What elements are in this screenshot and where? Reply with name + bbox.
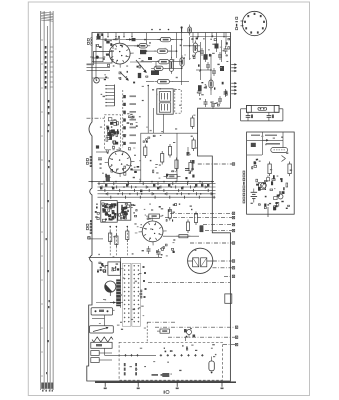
AM coil box	[91, 308, 112, 315]
transistor det T2	[278, 194, 283, 199]
wire dash-dot to terminal	[170, 212, 232, 214]
contact	[145, 288, 147, 290]
wire det top	[247, 139, 283, 141]
wire stub above border	[181, 27, 183, 33]
wire lamp left drop	[240, 109, 242, 121]
wire	[104, 348, 106, 355]
speaker with output transformer	[188, 248, 213, 273]
mark below schematic	[164, 391, 166, 394]
wire det vertical a	[261, 132, 263, 155]
wire	[183, 45, 200, 47]
junction	[127, 181, 129, 183]
resistor R2	[136, 44, 150, 48]
terminal	[235, 326, 237, 328]
IF can small box	[225, 294, 232, 303]
wire	[205, 33, 207, 63]
wire	[176, 33, 178, 59]
wire dash-dot to terminal	[203, 224, 232, 226]
resistor R10	[188, 25, 192, 36]
battery det	[251, 189, 258, 203]
wire	[140, 133, 142, 181]
junction	[127, 226, 129, 228]
label TOL/UKW	[124, 363, 126, 375]
tube socket pin diagram circle	[241, 11, 267, 35]
wire dash-dot to terminal	[168, 336, 235, 338]
FM mixer circle	[109, 130, 115, 136]
terminal	[232, 260, 234, 262]
capacitor	[204, 101, 208, 103]
switch block B outline	[118, 203, 131, 221]
capacitor	[224, 48, 228, 50]
wire dash-dot to terminal	[190, 242, 232, 244]
volume pot box	[94, 52, 113, 64]
capacitor	[198, 90, 202, 92]
terminal	[232, 267, 234, 269]
junction	[181, 61, 183, 63]
resistor R53	[186, 222, 189, 231]
wire lamp right	[279, 108, 283, 110]
IF transformer box	[157, 89, 173, 114]
contact	[143, 280, 145, 282]
component	[106, 41, 109, 44]
contact	[143, 266, 145, 268]
wire	[170, 61, 182, 63]
tube B2 ECH81	[139, 217, 167, 245]
capacitor C34	[149, 214, 160, 218]
wire	[126, 45, 143, 47]
cap	[98, 157, 102, 159]
xbox det	[259, 183, 266, 190]
cap	[112, 44, 114, 49]
wire bus y257	[89, 257, 163, 259]
terminal stub arrow	[231, 64, 236, 66]
parts right of switch block	[132, 204, 138, 217]
wire	[170, 45, 172, 58]
dial cord drum strip	[116, 279, 120, 306]
wire x120 v2	[120, 283, 122, 308]
wire	[168, 50, 176, 52]
tube B5 small (dark)	[105, 281, 116, 292]
resistor R1	[157, 37, 174, 41]
capacitor	[206, 64, 210, 66]
wire	[132, 169, 141, 171]
component	[148, 57, 152, 60]
component	[215, 44, 219, 49]
IF coil upper	[159, 92, 170, 102]
switch block A outline	[101, 201, 117, 223]
FM front end dashed box	[104, 115, 120, 150]
band selector contact grid	[122, 263, 140, 326]
cap marks	[185, 168, 190, 170]
label B4	[87, 38, 90, 44]
component	[97, 36, 101, 39]
schematic outline border	[87, 33, 231, 382]
det unit component cluster	[256, 175, 290, 210]
top right cap cluster	[201, 82, 227, 106]
wire lamp left	[241, 108, 247, 110]
wire dash-dot to terminal	[165, 217, 232, 219]
wire	[152, 108, 154, 133]
wire y302	[96, 302, 123, 304]
wire x120 v	[120, 258, 122, 283]
label SW4	[140, 290, 142, 299]
wire	[96, 39, 145, 41]
label B3	[86, 158, 89, 164]
wire	[130, 61, 152, 63]
wire	[96, 151, 109, 153]
coil box 4	[91, 358, 99, 363]
terminal	[232, 223, 234, 225]
value annotations bottom left	[99, 265, 146, 330]
tuner box	[108, 262, 120, 275]
extra annotations left mid	[102, 114, 138, 178]
junction	[115, 181, 117, 183]
terminal	[232, 163, 234, 165]
chassis contact row	[124, 354, 203, 356]
resistor R45	[189, 163, 192, 172]
terminal	[232, 212, 234, 214]
terminal	[232, 275, 234, 277]
wire dash vertical	[126, 226, 128, 256]
capacitor	[200, 50, 204, 52]
value annotations chassis	[130, 344, 217, 374]
wire	[172, 81, 189, 83]
decoupling box	[106, 175, 110, 182]
wire y236	[163, 235, 199, 237]
wire	[89, 238, 103, 240]
switch block B contacts	[119, 203, 130, 219]
resistor det R2	[288, 164, 291, 174]
trimmer	[187, 152, 190, 156]
junction	[175, 181, 177, 183]
terminal tick below bottom border	[176, 382, 178, 387]
label DET UNIT EH	[243, 171, 245, 204]
junction dots top	[151, 29, 153, 31]
wire	[176, 133, 178, 181]
tube B3 EF89	[105, 147, 135, 177]
bottom border thick bar	[95, 381, 236, 383]
trimmer	[192, 160, 195, 164]
wire lamp right drop	[282, 109, 284, 121]
junction	[103, 181, 105, 183]
tube B4 triode-pentode	[106, 40, 134, 68]
component	[203, 54, 207, 60]
switch block A contacts	[102, 203, 117, 222]
terminal	[232, 229, 234, 231]
arrow wiper	[126, 39, 131, 41]
label ECH81	[90, 220, 92, 234]
label B1-4	[235, 17, 238, 30]
resistor R7	[193, 41, 197, 56]
wire	[146, 33, 148, 44]
terminal left edge	[88, 237, 90, 239]
arrow tuning	[97, 269, 102, 271]
wire	[147, 85, 149, 133]
junction	[199, 181, 201, 183]
diagonal arrow 2	[120, 72, 128, 80]
wire	[92, 318, 105, 320]
wire	[225, 33, 227, 48]
dial strip top hatch	[41, 12, 53, 21]
dial scale tick marks and numerals	[41, 40, 53, 376]
label B2	[86, 224, 89, 230]
terminal	[235, 343, 237, 345]
junction	[91, 181, 93, 183]
wire dash-dot to terminal	[223, 344, 235, 346]
component cluster	[162, 373, 169, 377]
wire	[216, 33, 218, 53]
parts	[143, 135, 155, 143]
capacitor C22 box	[167, 174, 178, 178]
resistor R8	[169, 57, 173, 74]
small text left	[87, 64, 95, 66]
dial lamp assembly	[246, 105, 279, 112]
value annotations lower mid	[98, 204, 196, 258]
resistor R4	[156, 60, 173, 64]
resistor	[209, 78, 213, 91]
IF shield dashed	[175, 90, 181, 114]
label TOL/UKW	[135, 363, 137, 375]
DET UNIT enclosure	[247, 132, 295, 214]
wire	[145, 39, 160, 41]
coil box 2	[91, 342, 112, 348]
resistor	[115, 236, 118, 245]
component	[198, 85, 202, 91]
zigzag ferrite antenna	[92, 337, 113, 342]
stubs below top border	[99, 33, 224, 38]
capacitor block C6	[151, 70, 159, 75]
junction	[147, 85, 149, 87]
value annotations mid	[100, 113, 197, 180]
capacitor	[218, 98, 222, 100]
resistor	[109, 233, 112, 242]
wire dash-dot to terminal	[198, 163, 232, 165]
capacitor block C5	[140, 50, 146, 54]
misc parts	[104, 64, 148, 83]
capacitor	[157, 251, 161, 253]
coil 6DT-1863 pill	[271, 148, 288, 153]
resistor R51	[168, 210, 171, 219]
wire det second	[247, 154, 262, 156]
resistor R41	[144, 147, 147, 156]
contact	[144, 272, 146, 274]
tuning capacitor comb	[105, 85, 114, 107]
wire	[165, 67, 181, 69]
terminal stub arrow	[231, 67, 236, 69]
jack circle	[94, 77, 100, 83]
terminal stub arrow	[231, 70, 236, 72]
wire	[99, 359, 112, 361]
wire	[99, 352, 112, 354]
resistor R32	[192, 140, 195, 149]
chassis unit dashed box	[119, 342, 223, 380]
resistor R3	[154, 49, 171, 53]
wire det vertical b	[282, 132, 284, 148]
label above pill	[266, 143, 280, 145]
component	[200, 225, 203, 232]
junction	[144, 39, 146, 41]
capacitor	[218, 54, 222, 56]
capacitor	[147, 248, 151, 250]
area parts	[142, 244, 175, 255]
wire	[104, 315, 106, 326]
junction	[181, 39, 183, 41]
junction	[139, 181, 141, 183]
wire	[196, 69, 211, 71]
terminal	[232, 216, 234, 218]
electrolytic capacitor	[209, 361, 214, 371]
wire dash x147	[146, 322, 148, 342]
wire	[200, 42, 202, 80]
resistor R43	[168, 147, 171, 156]
resistor R44	[175, 160, 178, 169]
resistor	[126, 231, 129, 240]
det small text row	[251, 135, 260, 137]
antenna coil box	[90, 326, 114, 333]
wire dash-dot to terminal	[155, 326, 235, 328]
junction	[211, 181, 213, 183]
wire top second	[190, 36, 231, 38]
small parts	[99, 46, 102, 48]
terminal	[232, 242, 234, 244]
transistor det T1	[261, 183, 267, 189]
contact	[144, 296, 146, 298]
coil box 3	[91, 351, 99, 356]
top right misc parts	[184, 36, 230, 67]
arrow wiper	[134, 45, 139, 47]
wire	[148, 50, 156, 52]
label ECL	[91, 38, 93, 46]
resistor det R1	[268, 164, 271, 174]
component	[138, 73, 141, 78]
wire dash-dot to terminal	[205, 230, 232, 232]
label UM	[152, 374, 159, 376]
wire bus y133	[141, 132, 198, 134]
IF coil lower	[159, 103, 170, 112]
junction	[116, 226, 118, 228]
wire	[163, 114, 165, 133]
capacitor	[212, 70, 216, 72]
label EF89	[90, 156, 92, 167]
component	[200, 226, 203, 233]
area parts	[147, 203, 192, 221]
junction	[146, 50, 148, 52]
wire bus y181	[89, 181, 215, 183]
wire dash y282	[148, 282, 230, 284]
value annotations det	[251, 136, 293, 206]
wire	[92, 57, 103, 59]
arrow det top	[263, 139, 268, 141]
junction	[187, 181, 189, 183]
component	[220, 66, 224, 71]
capacitor	[224, 91, 228, 93]
wire	[102, 36, 104, 62]
junction	[151, 181, 153, 183]
parts left of switch block	[95, 204, 100, 220]
wire dash-dot to terminal	[213, 267, 233, 269]
trimmer capacitor ladder	[123, 90, 136, 148]
dial scale strip lines	[41, 11, 53, 390]
wire	[210, 55, 212, 95]
wire	[87, 66, 111, 68]
tuner box parts	[112, 264, 120, 271]
wire	[146, 81, 154, 83]
C30 box	[160, 329, 169, 333]
junction	[163, 181, 165, 183]
wire lamp bottom	[241, 120, 283, 122]
wire det bottom lead	[267, 207, 269, 217]
resistor R9	[180, 55, 184, 69]
wire dash y118	[87, 117, 105, 119]
junction	[210, 69, 212, 71]
terminal stub arrow	[231, 86, 236, 88]
wire	[141, 61, 158, 63]
resistor R52	[179, 235, 188, 238]
terminal tick below bottom border	[221, 382, 223, 387]
wire	[95, 44, 97, 80]
wire	[189, 37, 191, 60]
terminal	[235, 336, 237, 338]
transistor cluster	[187, 330, 192, 335]
tuner input parts	[97, 262, 106, 273]
arrow	[110, 302, 115, 304]
wire	[155, 62, 157, 68]
junction	[181, 68, 183, 70]
dial strip bottom hatch	[40, 383, 53, 389]
component	[132, 38, 136, 41]
chassis parts	[164, 345, 188, 352]
wire	[92, 61, 103, 63]
wire dash y322	[147, 321, 177, 323]
top left misc parts	[97, 33, 140, 46]
junction	[176, 50, 178, 52]
wire	[171, 39, 182, 41]
component	[96, 145, 99, 148]
wire	[181, 27, 183, 86]
capacitor lamp	[246, 115, 251, 117]
terminal stub arrow	[231, 93, 236, 95]
wire dash-dot to terminal	[213, 260, 232, 262]
diagonal arrow	[136, 60, 146, 72]
det parts upper left	[252, 159, 258, 169]
resistor R42	[161, 154, 164, 163]
resistor R31	[191, 118, 194, 127]
junction	[109, 226, 111, 228]
wire	[221, 40, 223, 62]
capacitor	[211, 103, 215, 105]
tube B3 surroundings	[106, 148, 140, 178]
resistor R54	[194, 214, 197, 223]
terminal stub arrow	[231, 82, 236, 84]
dot marks	[127, 116, 138, 127]
FM front end parts	[106, 118, 119, 149]
wire	[92, 77, 109, 79]
resistor R5	[151, 66, 166, 70]
wire y355	[105, 354, 157, 356]
terminal tick below bottom border	[137, 382, 139, 387]
value annotations right	[203, 38, 225, 104]
capacitor lamp	[267, 115, 272, 117]
value annotations top	[101, 39, 229, 106]
wire dash-dot to terminal	[224, 275, 232, 277]
terminal stub arrow	[231, 89, 236, 91]
junction	[200, 69, 202, 71]
resistor R6	[154, 79, 172, 83]
wire	[87, 70, 111, 72]
capacitor det top	[251, 143, 256, 147]
wire	[192, 33, 194, 44]
wire dash vertical	[109, 226, 111, 256]
